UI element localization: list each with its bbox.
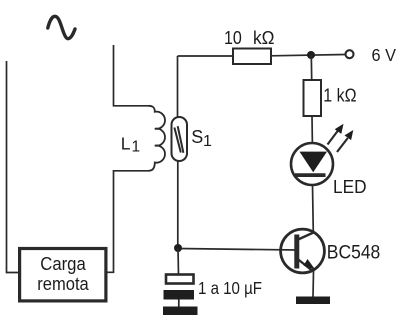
resistor R1 10k <box>233 49 271 65</box>
svg-text:6 V: 6 V <box>372 45 397 65</box>
wire: transistor emitter to ground <box>312 271 315 297</box>
wire: 10k to junction to 6V terminal <box>271 55 345 56</box>
wire: LED to transistor collector <box>312 185 315 233</box>
wire: base wire from junction to transistor <box>178 249 297 251</box>
wire: junction down to capacitor <box>177 248 180 275</box>
svg-text:1: 1 <box>203 133 212 150</box>
ground (capacitor) <box>163 307 198 316</box>
wire: top rail from S1 branch to 10k resistor <box>178 55 234 57</box>
inductor L1 <box>149 106 165 171</box>
wire: left AC line down to Carga remota box <box>7 61 20 273</box>
wire: capacitor to ground <box>178 300 180 308</box>
svg-text:kΩ: kΩ <box>253 28 274 48</box>
wire: S1 vertical branch upper <box>177 56 179 118</box>
svg-text:10: 10 <box>224 28 242 48</box>
node junction dot (base/capacitor) <box>174 244 182 252</box>
reed switch S1 <box>172 117 188 161</box>
svg-text:LED: LED <box>333 177 367 197</box>
wire: coil bottom to Carga remota box <box>106 171 149 272</box>
transistor Q1 BC548 <box>281 229 325 273</box>
svg-text:remota: remota <box>37 274 89 294</box>
resistor R2 1k <box>304 80 322 116</box>
svg-text:BC548: BC548 <box>327 242 381 263</box>
LED light arrows <box>328 131 339 145</box>
capacitor C1 bottom plate <box>164 290 195 300</box>
svg-text:1: 1 <box>132 139 141 156</box>
AC source symbol (sine wave) <box>48 16 75 38</box>
svg-text:L: L <box>121 134 131 154</box>
svg-text:S: S <box>191 127 203 147</box>
6V terminal circle <box>346 50 354 58</box>
LED D1 <box>291 143 333 185</box>
Carga remota load box <box>20 249 106 301</box>
capacitor C1 top plate <box>166 275 194 284</box>
svg-text:Carga: Carga <box>40 254 86 274</box>
wire: junction down to 1k resistor <box>310 55 312 80</box>
ground (emitter) <box>296 297 330 305</box>
wire: right AC line, coil top feed <box>114 45 149 106</box>
node junction dot top <box>307 51 315 59</box>
wire: 1k resistor to LED <box>311 116 314 152</box>
wire: S1 vertical branch lower to junction <box>179 154 181 162</box>
svg-text:1 kΩ: 1 kΩ <box>323 86 356 106</box>
svg-text:1 a 10 µF: 1 a 10 µF <box>198 278 262 298</box>
